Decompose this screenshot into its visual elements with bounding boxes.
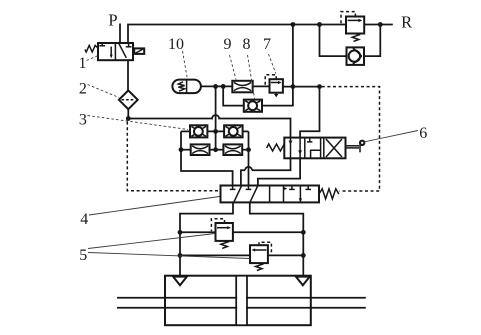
svg-text:5: 5 (79, 247, 87, 264)
check valve CV3 (bridge top-left) (190, 125, 207, 137)
orifice OR3 (bridge bottom-right) (223, 144, 242, 155)
svg-text:R: R (401, 12, 412, 31)
pilot line of valve 5 lower (259, 242, 271, 254)
wire valve 7 output line (283, 86, 320, 88)
node junction top rail relief right (378, 22, 383, 27)
svg-text:9: 9 (224, 36, 232, 53)
svg-text:7: 7 (263, 36, 271, 53)
leader 2 (88, 85, 120, 98)
node left line at relief 5a (178, 230, 183, 235)
node branch to bridge block (213, 84, 218, 89)
pilot line of valve 7 (265, 75, 276, 86)
node right line at relief 5b (301, 253, 306, 258)
node bridge left (179, 147, 184, 152)
leader 3 (88, 116, 189, 130)
directional valve DV1 (6) (284, 138, 345, 159)
node bridge center top (213, 129, 218, 134)
wire pilot riser from top rail down to reducing line (292, 25, 294, 87)
orifice OR1 (9) (232, 81, 252, 93)
accumulator AC1 (10) (172, 80, 201, 94)
node right line at relief 5a (301, 230, 306, 235)
leader 7 (269, 54, 276, 74)
svg-text:P: P (108, 10, 117, 29)
solenoid of valve 1 (134, 48, 144, 54)
wire orifice 9 to valve 7 (253, 85, 270, 87)
piston rod upper line (117, 297, 366, 299)
pilot line of valve 5 upper (211, 219, 224, 231)
svg-text:2: 2 (79, 80, 87, 97)
node junction top rail / pilot line (291, 22, 296, 27)
wire filter to junction (127, 109, 129, 118)
leader 5 to lower valve (88, 253, 250, 259)
svg-text:1: 1 (79, 55, 87, 72)
wire through-line A inside valve 6 going down with hop to valve 4 (241, 138, 291, 186)
wire check row of bridge (181, 130, 190, 132)
node left line at relief 5b (178, 253, 183, 258)
dashed enclosure box (322, 87, 380, 191)
spring of valve 5 lower (256, 263, 262, 271)
wire branch to check valve lower path (320, 25, 347, 57)
wire valve 4 bottom right port down-right (250, 202, 303, 275)
orifice OR2 (bridge bottom-left) (191, 144, 210, 155)
spring of valve 1 (85, 45, 98, 52)
check valve CV1 (top right) (347, 47, 365, 65)
svg-text:3: 3 (79, 111, 87, 128)
svg-text:4: 4 (80, 211, 88, 228)
wire top rail from valve 1 to R (128, 25, 393, 44)
wire through-line B inside valve 6 going down to valve 4 (258, 138, 300, 186)
leader 8 (248, 55, 255, 99)
wire from dashed-box corner down into valve 6 (300, 87, 319, 138)
leader 6 (365, 131, 418, 142)
wire bridge left leg down to valve 4 port (181, 131, 233, 185)
wire valve 1 to filter (127, 60, 129, 90)
node filter junction (126, 116, 131, 121)
wire accumulator to orifice 9 (201, 85, 232, 87)
svg-text:10: 10 (168, 36, 184, 53)
pilot line of relief valve RV1 (341, 12, 355, 24)
wire orifice row of bridge (181, 149, 191, 151)
spring of valve 5 upper (221, 241, 227, 249)
wire bridge right leg down to valve 4 port (248, 131, 250, 187)
cylinder CYL1 body (165, 276, 311, 326)
cylinder port seal right (296, 277, 310, 286)
spring of valve 4 (319, 189, 339, 199)
leader 4 (89, 197, 220, 216)
node junction top rail relief left (317, 22, 322, 27)
overload relief valve OV1 (5 upper) (216, 223, 233, 241)
filter F1 (2) (119, 90, 138, 109)
wire filter line to valve 6 with hop over x=215.6 (128, 115, 290, 138)
spring of valve 6 (267, 144, 285, 151)
node junction dashed-box corner (317, 84, 322, 89)
wire cross line 5a (180, 231, 216, 233)
valve V1 solenoid 2-position valve (1) (98, 43, 133, 60)
spring of relief valve RV1 (352, 34, 359, 42)
leader 9 (230, 55, 237, 80)
leader 1 (87, 56, 98, 61)
wire check valve to right riser (364, 25, 380, 57)
actuator pin of valve 6 (346, 141, 365, 153)
svg-text:8: 8 (243, 36, 251, 53)
piston of cylinder (237, 277, 246, 325)
wire feed riser into bridge block (215, 86, 217, 149)
check valve CV4 (bridge top-right) (224, 125, 243, 137)
node bridge right (246, 147, 251, 152)
leader 5 to upper valve (88, 234, 215, 249)
reducing valve RD1 (7) (270, 79, 283, 97)
leader 10 (183, 51, 188, 79)
bypass check valve CV2 (8) (223, 86, 293, 111)
svg-text:6: 6 (419, 125, 427, 142)
node bridge center bottom (213, 147, 218, 152)
wire valve 4 bottom left port down-left (180, 202, 233, 275)
wire cross line 5b (180, 254, 250, 256)
node junction 7-output/pilot riser (291, 84, 296, 89)
cylinder port seal left (173, 277, 187, 286)
node branch to bypass check (221, 84, 226, 89)
overload relief valve OV2 (5 lower) (250, 245, 268, 263)
piston rod lower line (117, 307, 366, 309)
relief valve RV1 (top right) (346, 17, 364, 34)
wire hop arc over bridge right leg (245, 167, 252, 170)
wire P supply down to valve 1 (119, 24, 121, 44)
multi-way valve MV1 (4) (221, 186, 320, 203)
